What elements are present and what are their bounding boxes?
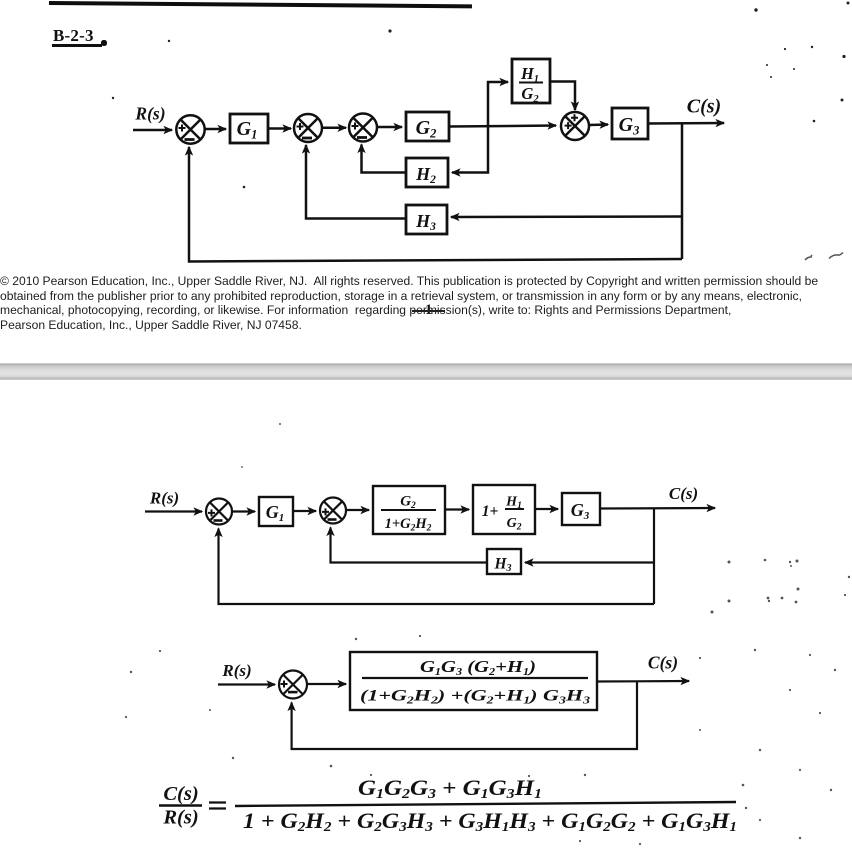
equation fraction bar (235, 802, 736, 806)
summing junction S2 (294, 114, 322, 142)
wire block to C(s) output (diagram 3) (597, 680, 689, 683)
wire output branch down (node at x=682) (681, 123, 684, 259)
svg-text:G2: G2 (400, 494, 416, 512)
svg-text:1+: 1+ (482, 503, 499, 520)
svg-text:C(s): C(s) (648, 653, 678, 673)
wire R(s) input to summing junction S1 (133, 129, 172, 132)
wire G3 to C(s) output (648, 122, 724, 125)
wire outer feedback to S5 (diagram 2) (219, 529, 655, 605)
block G3 (diagram 1) (612, 108, 648, 139)
heading B-2-3 (53, 26, 94, 46)
block H3 (diagram 1) (406, 205, 447, 234)
svg-text:H3: H3 (415, 211, 436, 233)
wire G1 to summing junction S2 (268, 127, 291, 130)
summing junction S5 (206, 499, 232, 525)
wire branch down to H2 input (452, 127, 488, 173)
page number 1 artifact over "permission" (425, 302, 432, 319)
scan noise specks (112, 2, 850, 469)
svg-text:G1: G1 (237, 118, 258, 142)
equation equals sign (209, 803, 226, 809)
svg-text:H2: H2 (415, 164, 436, 186)
block G2 (diagram 1) (406, 112, 449, 141)
block G1 (diagram 1) (230, 114, 268, 143)
svg-text:C(s): C(s) (669, 484, 698, 503)
svg-text:R(s): R(s) (134, 104, 165, 124)
summing junction S1 (176, 115, 204, 143)
wire block to block 1+H1/G2 (445, 508, 469, 510)
svg-text:H3: H3 (493, 556, 511, 575)
wire branch up to H1/G2 block (488, 82, 508, 127)
wire output branch down (node at x=654) (653, 508, 655, 604)
wire H1/G2 output down into S4 top (550, 82, 575, 111)
block G1G3(G2+H1)/((1+G2H2)+(G2+H1)G3H3) (350, 652, 597, 710)
svg-text:G1G2G3 + G1G3H1: G1G2G3 + G1G3H1 (358, 775, 542, 802)
block H3 (diagram 2) (487, 549, 521, 574)
copyright text block (0, 274, 818, 332)
wire S1 to G1 (204, 128, 226, 131)
wire outer feedback from C down to S1 (189, 147, 682, 262)
svg-text:1 + G2H2 + G2G3H3 + G3H1H3 + G: 1 + G2H2 + G2G3H3 + G3H1H3 + G1G2G2 + G1… (243, 808, 737, 835)
wire feedback (diagram 3) (292, 681, 637, 749)
summing junction S4 (561, 112, 589, 140)
tilde dashes right margin (805, 253, 843, 261)
wire G2 to summing junction S4 (with branch node at x=488) (449, 126, 556, 127)
wire S6 to block G2/(1+G2H2) (346, 509, 369, 511)
svg-text:1+G2H2: 1+G2H2 (385, 516, 432, 534)
gray page separator bar (0, 363, 852, 380)
svg-text:R(s): R(s) (162, 807, 198, 829)
svg-text:G1: G1 (266, 502, 285, 524)
summing junction S3 (349, 114, 377, 142)
summing junction S7 (279, 671, 307, 699)
svg-text:R(s): R(s) (149, 489, 179, 508)
top rule line (49, 1, 472, 8)
wire H3 output up into S6 bottom (diagram 2) (331, 528, 488, 563)
svg-text:(1+G2H2) +(G2+H1) G3H3: (1+G2H2) +(G2+H1) G3H3 (360, 688, 590, 707)
wire to G3 (535, 508, 558, 510)
wire H2 output up into S3 bottom (362, 145, 407, 173)
wire S4 to G3 (589, 123, 608, 126)
svg-text:G1G3 (G2+H1): G1G3 (G2+H1) (420, 657, 536, 678)
svg-text:C(s): C(s) (163, 783, 198, 805)
svg-text:G2: G2 (507, 516, 522, 533)
wire S2 to summing junction S3 (321, 127, 346, 130)
scan noise specks page 2 (125, 559, 850, 845)
wire R(s) input to summing junction S7 (218, 683, 275, 685)
svg-text:G2: G2 (416, 117, 437, 141)
block H1/G2 (diagram 1) (512, 59, 550, 103)
svg-text:R(s): R(s) (221, 661, 251, 680)
svg-text:G3: G3 (571, 500, 590, 522)
wire G3 to C(s) output (diagram 2) (600, 507, 715, 510)
wire C branch to H3 input (451, 215, 682, 218)
wire branch to H3 input (diagram 2) (525, 561, 654, 563)
svg-text:G3: G3 (619, 114, 640, 138)
wire G1 to summing junction S6 (293, 510, 316, 512)
block 1+H1/G2 (473, 485, 535, 534)
block G2/(1+G2H2) (373, 486, 445, 534)
svg-text:C(s): C(s) (687, 96, 721, 118)
summing junction S6 (320, 498, 346, 524)
wire S7 to transfer-function block (307, 683, 346, 685)
block G1 (diagram 2) (259, 497, 293, 526)
wire R(s) input to summing junction S5 (145, 510, 202, 512)
wire S5 to G1 (232, 510, 255, 512)
svg-text:G2: G2 (521, 84, 539, 105)
wire S3 to G2 (376, 126, 402, 129)
block G3 (diagram 2) (562, 493, 600, 525)
wire H3 output up into S2 bottom (306, 145, 406, 219)
block H2 (diagram 1) (406, 158, 448, 187)
